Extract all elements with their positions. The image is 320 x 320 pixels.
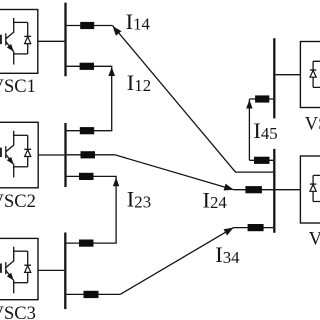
converter box VSC4 (bottom right): [300, 156, 320, 223]
current arrow I45 (pointing up to node 5): [246, 100, 252, 109]
wire VSC2 to bus 2: [38, 154, 64, 156]
reactor L14 on bus1 upper stub: [80, 22, 94, 29]
svg-text:I45: I45: [253, 118, 277, 143]
wire line 2-4 end segment into bus 4 and VSC4: [234, 189, 300, 191]
wire diagonal line 2-4: [115, 155, 234, 190]
svg-text:VSC2: VSC2: [0, 192, 36, 212]
wire bus2 lower stub (line 2-3): [67, 175, 117, 177]
current arrow I12 (pointing up to node 1): [108, 67, 115, 76]
wire bus1 upper stub (line 1-4): [67, 25, 113, 27]
converter box VSC3: [0, 238, 38, 299]
wire bus5 stub (line 4-5): [249, 98, 273, 100]
svg-text:VSC3: VSC3: [0, 304, 36, 320]
wire vertical link line 2-3: [115, 176, 117, 243]
current arrow I34 (pointing to node 4): [224, 228, 234, 236]
IGBT Q2 with diode D2 inside VSC2: [0, 131, 31, 178]
reactor L24a on bus2 middle stub: [81, 151, 96, 158]
current arrow I14 (pointing to node 1): [113, 26, 122, 36]
reactor L24b on line 2-4 end: [245, 186, 262, 193]
svg-text:VSC5: VSC5: [305, 114, 320, 134]
wire diagonal line 3-4: [120, 228, 233, 295]
svg-text:I12: I12: [127, 70, 151, 95]
converter box VSC2: [0, 122, 38, 188]
current arrow I23 (pointing up to node 2): [113, 177, 119, 186]
diode D4 inside VSC4: [310, 175, 320, 201]
bus node 2: [64, 123, 66, 187]
svg-text:I24: I24: [203, 187, 228, 212]
IGBT Q3 with diode D3 inside VSC3: [0, 247, 31, 294]
current arrow I24 (pointing to node 4): [224, 184, 234, 191]
reactor L45a on bus5 stub: [255, 95, 269, 102]
reactor L23b on bus3 upper stub: [79, 240, 94, 247]
wire bus4 upper stub (line 4-5): [249, 159, 273, 161]
svg-text:VSC4: VSC4: [309, 229, 320, 249]
wire bus2 upper stub (line 1-2): [67, 130, 113, 132]
reactor L34b on line 3-4 end: [248, 224, 264, 231]
reactor L23a on bus2 lower stub: [79, 173, 94, 180]
converter box VSC5 (top right): [300, 42, 320, 108]
svg-text:I34: I34: [215, 242, 240, 267]
converter box VSC1: [0, 10, 38, 74]
bus node 5 (top right): [273, 38, 275, 118]
reactor L34a on bus3 lower stub: [84, 291, 99, 298]
reactor L12b on bus2 upper stub: [80, 127, 94, 134]
wire line 3-4 end segment into bus 4: [234, 227, 274, 229]
bus node 4 (bottom right): [273, 149, 275, 233]
wire bus3 lower stub (line 3-4): [66, 293, 120, 295]
wire VSC1 to bus 1: [38, 40, 65, 42]
reactor L45b on bus4 upper stub: [254, 157, 270, 164]
bus node 3: [64, 233, 66, 310]
wire vertical link line 1-2: [111, 66, 113, 130]
diode D5 inside VSC5: [310, 61, 320, 87]
svg-text:I14: I14: [126, 9, 151, 34]
wire VSC5 to bus 5: [275, 74, 300, 76]
bus node 1: [64, 3, 66, 77]
svg-text:I23: I23: [127, 187, 151, 212]
wire bus1 lower stub (line 1-2): [67, 65, 113, 67]
wire VSC3 to bus 3: [38, 269, 64, 271]
reactor L12a on bus1 lower stub: [80, 63, 94, 70]
IGBT Q1 with diode D1 inside VSC1: [0, 18, 31, 65]
wire bus2 middle stub (line 2-4): [67, 154, 115, 156]
wire diagonal line 1-4: [113, 26, 274, 173]
wire bus3 upper stub (line 2-3): [66, 242, 116, 244]
svg-text:VSC1: VSC1: [0, 77, 36, 97]
wire vertical link line 4-5: [248, 99, 250, 160]
